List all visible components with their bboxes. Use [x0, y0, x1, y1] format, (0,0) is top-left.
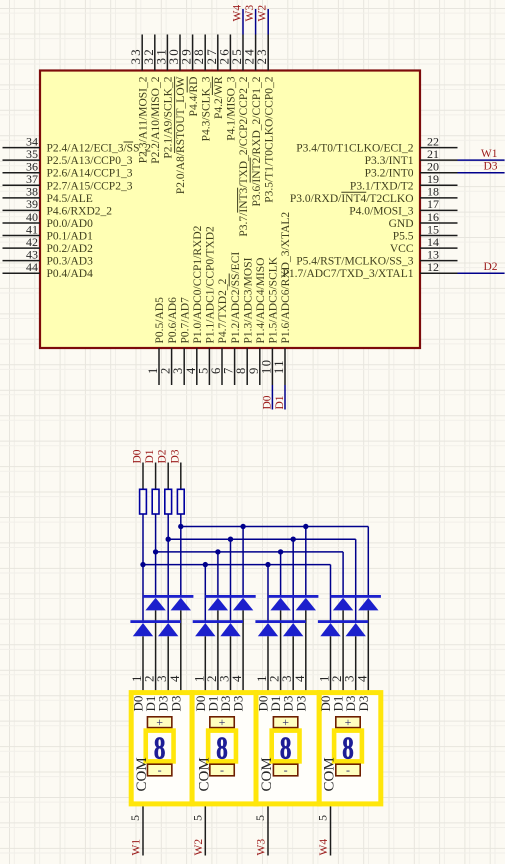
- LED lower group3 col1: [258, 623, 278, 636]
- U1 pin 9 P1.4/ADC4/MISO: [247, 258, 267, 385]
- U1 pin 37 P2.7/A15/CCP2_3: [3, 172, 133, 192]
- LED lower group1 col3: [158, 623, 178, 636]
- wire drop group2 D1: [217, 552, 219, 596]
- U1 pin 42 P0.2/AD2: [3, 235, 94, 255]
- svg-text:P0.1/AD1: P0.1/AD1: [47, 231, 94, 243]
- junction node bus C group2: [215, 549, 220, 554]
- svg-text:P4.0/MOSI_3: P4.0/MOSI_3: [349, 205, 413, 217]
- wire net D0: [271, 385, 273, 410]
- DS2 pin name D0: [193, 696, 208, 712]
- DS3 pin 3 number: [279, 676, 294, 683]
- DS4 pin 1 number: [317, 676, 332, 683]
- wire drop group4 D3: [367, 527, 369, 596]
- svg-text:5: 5: [128, 815, 142, 821]
- U1 pin 6 P4.7/TXD2_2: [209, 278, 229, 385]
- wire D1 to resistor R2: [155, 463, 157, 490]
- svg-text:D1: D1: [274, 395, 286, 409]
- svg-text:P0.5/AD5: P0.5/AD5: [154, 297, 166, 344]
- U1 pin 7 P1.2/ADC2/SS/ECI: [222, 252, 242, 385]
- DS2 digit 8 box: [208, 731, 236, 767]
- svg-text:D3: D3: [293, 696, 308, 712]
- DS3 digit 8 box: [272, 731, 300, 767]
- svg-text:COM: COM: [196, 757, 212, 791]
- U1 pin 2 P0.6/AD6: [159, 297, 179, 385]
- svg-text:D3: D3: [169, 449, 181, 463]
- net label W1: [481, 148, 498, 160]
- LED lower group2 col1: [195, 623, 215, 636]
- wire drop group2 D3: [242, 527, 244, 596]
- svg-text:W2: W2: [257, 5, 269, 22]
- svg-text:D3: D3: [168, 696, 183, 712]
- svg-text:P3.6/INT2/RXD_2/CCP1_2: P3.6/INT2/RXD_2/CCP1_2: [251, 76, 263, 206]
- wire D2 to resistor R3: [167, 463, 169, 490]
- svg-text:P4.1/MISO_3: P4.1/MISO_3: [226, 76, 238, 140]
- junction node bus A group1: [178, 524, 183, 529]
- net label D2: [483, 261, 497, 273]
- LED D1a upper group1 col2: [145, 598, 165, 611]
- svg-text:8: 8: [280, 731, 292, 767]
- DS3 minus box: [273, 763, 297, 777]
- wire net D2: [458, 272, 505, 274]
- wire below upper LED group1 col2: [155, 610, 157, 690]
- DS4 pin name D0: [318, 696, 333, 712]
- svg-text:P3.7/INT3/TXD_2/CCP2/CCP2_2: P3.7/INT3/TXD_2/CCP2/CCP2_2: [238, 76, 250, 236]
- U1 pin 34 P2.4/A12/ECI_3/SS_2: [3, 134, 152, 154]
- junction node bus D group2: [203, 562, 208, 567]
- 7-seg display DS3 body: [256, 693, 319, 804]
- U1 pin 8 P1.3/ADC3/MOSI: [234, 257, 254, 385]
- U1 pin 29 P4.4/RD: [179, 35, 200, 117]
- LED lower group1 col1: [133, 623, 153, 636]
- U1 pin 18 P3.0/RXD/INT4/T2CLKO: [290, 185, 458, 205]
- DS1 pin name D3: [156, 696, 171, 712]
- svg-text:8: 8: [216, 731, 228, 767]
- junction node bus B group1: [166, 537, 171, 542]
- wire below upper LED group3 col2: [280, 610, 282, 690]
- DS4 pin name D1: [331, 696, 346, 712]
- DS1 minus box: [147, 763, 171, 777]
- DS4 COM label: [322, 757, 338, 791]
- wire drop group4 D0: [330, 565, 332, 621]
- svg-text:+: +: [156, 715, 163, 729]
- wire bus row C (D1 line): [156, 551, 344, 553]
- svg-text:P1.6/ADC6/RXD_3/XTAL2: P1.6/ADC6/RXD_3/XTAL2: [280, 212, 292, 344]
- wire D0 to resistor R1: [142, 463, 144, 490]
- junction node bus B group3: [291, 537, 296, 542]
- svg-text:4: 4: [229, 675, 244, 682]
- svg-text:P4.4/RD: P4.4/RD: [188, 77, 200, 117]
- LED D4c upper group4 col4: [358, 598, 378, 611]
- wire resistor R1 to diodes: [142, 514, 144, 621]
- wire resistor R2 to diodes: [155, 514, 157, 596]
- DS4 digit 8 box: [334, 731, 362, 767]
- DS1 COM label: [134, 757, 150, 791]
- svg-text:P0.3/AD3: P0.3/AD3: [47, 256, 94, 268]
- svg-text:W3: W3: [244, 5, 256, 22]
- svg-text:P2.6/A14/CCP1_3: P2.6/A14/CCP1_3: [47, 168, 133, 180]
- svg-text:5: 5: [316, 815, 330, 821]
- DS2 minus box: [210, 763, 234, 777]
- DS1 pin 5 number: [128, 815, 142, 821]
- svg-text:P4.7/TXD2_2: P4.7/TXD2_2: [217, 278, 229, 343]
- resistor R3: [165, 489, 172, 514]
- DS3 COM label: [259, 757, 275, 791]
- svg-text:P2.5/A13/CCP0_3: P2.5/A13/CCP0_3: [47, 155, 133, 167]
- wire bus row B (D2 line): [168, 538, 356, 540]
- U1 pin 1 P0.5/AD5: [146, 297, 166, 385]
- svg-text:P5.5: P5.5: [393, 231, 414, 243]
- U1 pin 10 P1.5/ADC5/SCLK: [259, 256, 279, 385]
- U1 pin 13 P5.4/RST/MCLKO/SS_3: [296, 247, 457, 267]
- DS4 pin 2 number: [329, 676, 344, 683]
- U1 pin 25 P3.7/INT3/TXD_2/CCP2/CCP2_2: [229, 35, 250, 237]
- net label D0: [132, 449, 144, 463]
- diode pair cathode bar lower group3: [255, 620, 305, 623]
- DS4 minus box: [336, 763, 360, 777]
- U1 pin 19 P3.1/TXD/T2: [350, 172, 458, 192]
- wire below lower LED group3 col3: [292, 636, 294, 690]
- net label W2: [193, 839, 205, 856]
- 7-seg display DS1 body: [131, 693, 192, 804]
- U1 pin 11 P1.6/ADC6/RXD_3/XTAL2: [272, 212, 292, 385]
- svg-text:44: 44: [26, 260, 38, 274]
- net label D3: [169, 449, 181, 463]
- net label D1: [274, 395, 286, 409]
- svg-text:W4: W4: [318, 839, 330, 856]
- svg-text:W2: W2: [193, 839, 205, 856]
- U1 pin 14 VCC: [390, 235, 458, 255]
- svg-text:W1: W1: [481, 148, 498, 160]
- svg-text:4: 4: [167, 675, 182, 682]
- svg-text:P0.2/AD2: P0.2/AD2: [47, 243, 94, 255]
- U1 pin 20 P3.2/INT0: [365, 160, 458, 180]
- wire DS4 pin5 to net W4: [330, 806, 332, 855]
- DS4 pin 5 number: [316, 815, 330, 821]
- U1 pin 41 P0.1/AD1: [3, 222, 94, 242]
- U1 pin 27 P4.2/WR: [204, 35, 225, 120]
- DS3 pin name D0: [256, 696, 271, 712]
- wire resistor R4 to diodes: [180, 514, 182, 596]
- svg-text:D0: D0: [261, 395, 273, 409]
- DS1 pin name D0: [131, 696, 146, 712]
- junction node bus A group2: [240, 524, 245, 529]
- wire drop group2 D0: [204, 565, 206, 621]
- svg-text:-: -: [346, 763, 350, 777]
- net label D1: [144, 449, 156, 463]
- DS1 pin 2 number: [142, 676, 157, 683]
- LED lower group3 col3: [283, 623, 303, 636]
- U1 pin 30 P2.0/A8/RSTOUT_LOW: [166, 35, 187, 195]
- U1 pin 31 P2.1/A9/SCLK_2: [153, 35, 174, 159]
- DS1 pin 1 number: [129, 676, 144, 683]
- LED D4a upper group4 col2: [333, 598, 353, 611]
- LED D3a upper group3 col2: [270, 598, 290, 611]
- svg-text:P3.2/INT0: P3.2/INT0: [365, 168, 414, 180]
- diode pair cathode bar upper group3: [268, 595, 318, 598]
- svg-text:P0.6/AD6: P0.6/AD6: [167, 297, 179, 344]
- U1 pin 28 P4.3/SCLK_3: [191, 35, 212, 142]
- U1 pin 17 P4.0/MOSI_3: [349, 197, 457, 217]
- svg-text:P1.4/ADC4/MISO: P1.4/ADC4/MISO: [255, 258, 267, 344]
- DS1 pin name D3: [168, 696, 183, 712]
- junction node bus C group1: [153, 549, 158, 554]
- wire below lower LED group4 col3: [355, 636, 357, 690]
- U1 pin 22 P3.4/T0/T1CLKO/ECI_2: [296, 134, 457, 154]
- svg-text:P4.6/RXD2_2: P4.6/RXD2_2: [47, 205, 113, 217]
- svg-text:4: 4: [354, 675, 369, 682]
- LED lower group4 col3: [346, 623, 366, 636]
- junction node bus A group3: [303, 524, 308, 529]
- DS1 pin name D1: [143, 696, 158, 712]
- DS2 pin name D3: [231, 696, 246, 712]
- svg-text:P4.2/WR: P4.2/WR: [213, 76, 225, 119]
- U1 pin 12 P1.7/ADC7/TXD_3/XTAL1: [282, 260, 457, 280]
- DS3 pin name D3: [293, 696, 308, 712]
- wire below upper LED group4 col4: [367, 610, 369, 690]
- wire bus row D (D0 line): [143, 564, 331, 566]
- U1 pin 39 P4.6/RXD2_2: [3, 197, 113, 217]
- svg-text:P4.3/SCLK_3: P4.3/SCLK_3: [200, 76, 212, 141]
- junction node bus D group3: [265, 562, 270, 567]
- 7-seg display DS2 body: [192, 693, 256, 804]
- svg-text:W3: W3: [256, 839, 268, 856]
- wire below upper LED group2 col4: [242, 610, 244, 690]
- svg-text:W1: W1: [131, 839, 143, 856]
- DS2 pin 3 number: [217, 676, 232, 683]
- wire below upper LED group3 col4: [305, 610, 307, 690]
- DS2 pin 5 number: [190, 815, 204, 821]
- 7-seg display DS4 body: [319, 693, 381, 804]
- wire below lower LED group3 col1: [267, 636, 269, 690]
- svg-text:D0: D0: [132, 449, 144, 463]
- resistor R2: [152, 489, 159, 514]
- resistor R1: [140, 489, 147, 514]
- svg-text:+: +: [282, 715, 289, 729]
- wire net W4: [242, 9, 244, 35]
- wire below lower LED group4 col1: [330, 636, 332, 690]
- svg-text:P0.7/AD7: P0.7/AD7: [179, 297, 191, 344]
- DS3 pin 4 number: [292, 675, 307, 682]
- svg-text:P1.2/ADC2/SS/ECI: P1.2/ADC2/SS/ECI: [230, 252, 242, 344]
- net label W4: [318, 839, 330, 856]
- svg-text:-: -: [284, 763, 288, 777]
- resistor R4: [177, 489, 184, 514]
- svg-text:P3.0/RXD/INT4/T2CLKO: P3.0/RXD/INT4/T2CLKO: [290, 193, 414, 205]
- DS2 pin 1 number: [191, 676, 206, 683]
- svg-text:D3: D3: [231, 696, 246, 712]
- U1 pin 38 P4.5/ALE: [3, 185, 93, 205]
- svg-text:GND: GND: [389, 218, 414, 230]
- DS4 pin 3 number: [342, 676, 357, 683]
- svg-text:P5.4/RST/MCLKO/SS_3: P5.4/RST/MCLKO/SS_3: [296, 256, 414, 268]
- U1 pin 15 P5.5: [393, 222, 458, 242]
- DS2 plus box: [210, 715, 234, 729]
- svg-text:P3.1/TXD/T2: P3.1/TXD/T2: [350, 180, 414, 192]
- wire net W3: [255, 9, 257, 35]
- U1 pin 3 P0.7/AD7: [171, 297, 191, 385]
- DS1 plus box: [147, 715, 171, 729]
- DS1 digit 8 box: [146, 731, 174, 767]
- wire net D1: [284, 385, 286, 410]
- svg-text:P1.5/ADC5/SCLK: P1.5/ADC5/SCLK: [268, 256, 280, 343]
- svg-text:P2.4/A12/ECI_3/SS_2: P2.4/A12/ECI_3/SS_2: [47, 143, 152, 155]
- DS3 pin 1 number: [254, 676, 269, 683]
- wire drop group3 D1: [280, 552, 282, 596]
- svg-text:P0.0/AD0: P0.0/AD0: [47, 218, 94, 230]
- diode pair cathode bar lower group1: [130, 620, 180, 623]
- wire below upper LED group4 col2: [342, 610, 344, 690]
- svg-text:VCC: VCC: [390, 243, 414, 255]
- svg-text:COM: COM: [322, 757, 338, 791]
- svg-text:COM: COM: [134, 757, 150, 791]
- U1 pin 26 P4.1/MISO_3: [216, 35, 237, 141]
- wire below lower LED group1 col1: [142, 636, 144, 690]
- wire resistor R3 to diodes: [167, 514, 169, 621]
- DS4 pin name D3: [343, 696, 358, 712]
- junction node bus B group2: [228, 537, 233, 542]
- DS3 pin 2 number: [267, 676, 282, 683]
- U1 pin 4 P1.0/ADC0/CCP1/RXD2: [184, 225, 204, 385]
- wire DS1 pin5 to net W1: [142, 806, 144, 855]
- U1 pin 36 P2.6/A14/CCP1_3: [3, 160, 133, 180]
- wire net D3: [458, 172, 505, 174]
- svg-text:P2.2/A10/MISO_2: P2.2/A10/MISO_2: [150, 76, 162, 163]
- svg-text:D2: D2: [483, 261, 497, 273]
- svg-text:COM: COM: [259, 757, 275, 791]
- svg-text:D2: D2: [157, 449, 169, 463]
- wire below upper LED group2 col2: [217, 610, 219, 690]
- LED D2c upper group2 col4: [233, 598, 253, 611]
- DS3 pin 5 number: [253, 815, 267, 821]
- svg-text:D1: D1: [144, 449, 156, 463]
- U1 pin 24 P3.6/INT2/RXD_2/CCP1_2: [242, 35, 263, 207]
- net label W1: [131, 839, 143, 856]
- net label D3: [483, 161, 497, 173]
- wire D3 to resistor R4: [180, 463, 182, 490]
- svg-text:P2.3/A11/MOSI_2: P2.3/A11/MOSI_2: [137, 76, 149, 163]
- DS4 pin 4 number: [354, 675, 369, 682]
- net label W4: [232, 5, 244, 22]
- DS4 pin name D3: [356, 696, 371, 712]
- svg-text:8: 8: [342, 731, 354, 767]
- svg-text:P3.3/INT1: P3.3/INT1: [365, 155, 414, 167]
- svg-text:8: 8: [154, 731, 166, 767]
- wire DS2 pin5 to net W2: [204, 806, 206, 855]
- LED D1c upper group1 col4: [171, 598, 191, 611]
- svg-text:P1.3/ADC3/MOSI: P1.3/ADC3/MOSI: [242, 257, 254, 343]
- diode pair cathode bar lower group4: [318, 620, 368, 623]
- net label D2: [157, 449, 169, 463]
- wire below upper LED group1 col4: [180, 610, 182, 690]
- U1 pin 32 P2.2/A10/MISO_2: [141, 35, 162, 164]
- svg-text:P3.5/T1/T0CLKO/CCP0_2: P3.5/T1/T0CLKO/CCP0_2: [263, 76, 275, 202]
- DS1 pin 4 number: [167, 675, 182, 682]
- U1 pin 35 P2.5/A13/CCP0_3: [3, 147, 133, 167]
- U1 pin 44 P0.4/AD4: [3, 260, 94, 280]
- junction node bus D group1: [140, 562, 145, 567]
- diode pair cathode bar upper group2: [205, 595, 255, 598]
- net label W2: [257, 5, 269, 22]
- svg-text:+: +: [345, 715, 352, 729]
- diode pair cathode bar upper group4: [331, 595, 381, 598]
- svg-text:P4.5/ALE: P4.5/ALE: [47, 193, 93, 205]
- svg-text:4: 4: [292, 675, 307, 682]
- U1 pin 23 P3.5/T1/T0CLKO/CCP0_2: [254, 35, 275, 203]
- svg-text:P0.4/AD4: P0.4/AD4: [47, 268, 94, 280]
- svg-text:D3: D3: [356, 696, 371, 712]
- wire drop group2 D2: [230, 539, 232, 621]
- wire below lower LED group2 col3: [230, 636, 232, 690]
- svg-text:5: 5: [253, 815, 267, 821]
- svg-text:23: 23: [254, 47, 269, 64]
- svg-text:P3.4/T0/T1CLKO/ECI_2: P3.4/T0/T1CLKO/ECI_2: [296, 143, 413, 155]
- U1 pin 33 P2.3/A11/MOSI_2: [128, 35, 149, 164]
- svg-text:12: 12: [427, 260, 439, 274]
- DS2 pin 2 number: [204, 676, 219, 683]
- LED lower group4 col1: [320, 623, 340, 636]
- DS4 plus box: [336, 715, 360, 729]
- net label W3: [244, 5, 256, 22]
- wire net W1: [458, 159, 505, 161]
- IC U1 MCU body: [40, 71, 420, 349]
- DS2 pin name D1: [205, 696, 220, 712]
- DS3 pin name D3: [281, 696, 296, 712]
- svg-text:P1.7/ADC7/TXD_3/XTAL1: P1.7/ADC7/TXD_3/XTAL1: [282, 268, 413, 280]
- svg-text:P1.0/ADC0/CCP1/RXD2: P1.0/ADC0/CCP1/RXD2: [192, 225, 204, 343]
- svg-text:P2.0/A8/RSTOUT_LOW: P2.0/A8/RSTOUT_LOW: [175, 76, 187, 194]
- wire below lower LED group2 col1: [204, 636, 206, 690]
- LED D3c upper group3 col4: [296, 598, 316, 611]
- U1 pin 21 P3.3/INT1: [365, 147, 458, 167]
- svg-text:W4: W4: [232, 5, 244, 22]
- DS2 COM label: [196, 757, 212, 791]
- wire below lower LED group1 col3: [167, 636, 169, 690]
- DS1 pin 3 number: [154, 676, 169, 683]
- U1 pin 16 GND: [389, 210, 458, 230]
- svg-text:5: 5: [190, 815, 204, 821]
- wire DS3 pin5 to net W3: [267, 806, 269, 855]
- diode pair cathode bar upper group1: [143, 595, 193, 598]
- DS3 plus box: [273, 715, 297, 729]
- net label W3: [256, 839, 268, 856]
- net label D0: [261, 395, 273, 409]
- wire drop group4 D2: [355, 539, 357, 621]
- svg-text:+: +: [219, 715, 226, 729]
- wire bus row A (D3 line): [181, 526, 368, 528]
- wire net W2: [267, 9, 269, 35]
- DS2 pin 4 number: [229, 675, 244, 682]
- LED lower group2 col3: [220, 623, 240, 636]
- wire drop group3 D2: [292, 539, 294, 621]
- svg-text:D3: D3: [483, 161, 497, 173]
- U1 pin 5 P1.1/ADC1/CCP0/TXD2: [196, 226, 216, 385]
- diode pair cathode bar lower group2: [193, 620, 243, 623]
- svg-text:-: -: [220, 763, 224, 777]
- junction node bus C group3: [278, 549, 283, 554]
- DS2 pin name D3: [218, 696, 233, 712]
- svg-text:P2.7/A15/CCP2_3: P2.7/A15/CCP2_3: [47, 180, 133, 192]
- svg-text:11: 11: [272, 359, 286, 374]
- svg-text:P2.1/A9/SCLK_2: P2.1/A9/SCLK_2: [163, 76, 175, 158]
- svg-text:P1.1/ADC1/CCP0/TXD2: P1.1/ADC1/CCP0/TXD2: [205, 226, 217, 344]
- wire drop group4 D1: [342, 552, 344, 596]
- wire drop group3 D3: [305, 527, 307, 596]
- svg-text:-: -: [158, 763, 162, 777]
- U1 pin 43 P0.3/AD3: [3, 247, 94, 267]
- U1 pin 40 P0.0/AD0: [3, 210, 94, 230]
- LED D2a upper group2 col2: [208, 598, 228, 611]
- wire drop group3 D0: [267, 565, 269, 621]
